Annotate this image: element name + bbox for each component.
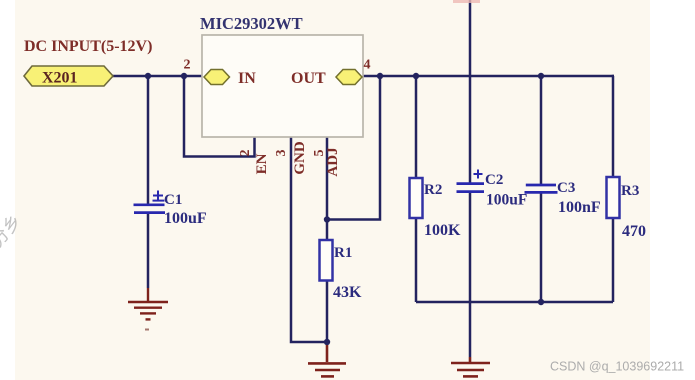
C1 plus sign <box>153 191 165 201</box>
node: junction OUT/feedback <box>377 73 383 79</box>
wire: C1 lower lead <box>147 213 150 288</box>
svg-text:CSDN @q_1039692211: CSDN @q_1039692211 <box>550 360 684 374</box>
wire: C2 lower lead to ground <box>469 193 472 357</box>
svg-text:GND: GND <box>292 141 308 175</box>
node: junction at C1 drop <box>145 73 151 79</box>
svg-text:100uF: 100uF <box>486 192 527 209</box>
node: junction R1 bottom / GND <box>324 339 330 345</box>
svg-text:470: 470 <box>622 223 646 240</box>
C2 plus sign <box>474 170 483 179</box>
node: junction OUT/C3 <box>538 73 544 79</box>
capacitor C1 <box>134 205 166 213</box>
wire: C1 upper lead <box>147 76 150 204</box>
svg-text:C3: C3 <box>557 180 575 196</box>
svg-text:MIC29302WT: MIC29302WT <box>200 14 303 33</box>
wire: C3 lower lead <box>540 193 543 302</box>
svg-text:2: 2 <box>184 58 191 73</box>
svg-text:3: 3 <box>274 150 289 157</box>
resistor R2 <box>410 178 423 218</box>
resistor R3 <box>607 177 620 218</box>
resistor R1 <box>320 240 333 281</box>
svg-text:EN: EN <box>254 153 270 174</box>
svg-text:43K: 43K <box>333 284 362 301</box>
capacitor C3 <box>525 185 558 192</box>
svg-text:IN: IN <box>238 70 256 87</box>
node: junction rail/C3 <box>538 299 544 305</box>
svg-text:C2: C2 <box>485 172 503 188</box>
ground (R1) <box>308 345 346 376</box>
svg-text:C1: C1 <box>164 192 182 208</box>
wire: X201 to IC IN <box>112 75 205 78</box>
svg-text:2: 2 <box>238 150 253 157</box>
pin 4 OUT hexagon <box>336 70 362 85</box>
faint top smudge <box>453 0 480 3</box>
capacitor C2 <box>457 184 485 192</box>
wire: R2 upper lead <box>415 76 418 178</box>
wire: R1 lower lead <box>326 280 329 342</box>
wire: GND pin down and to ground <box>291 137 327 342</box>
wire: ADJ pin down <box>326 137 329 220</box>
wire: ADJ feedback to OUT <box>327 76 380 220</box>
connector X201 <box>24 66 113 87</box>
ground (center) <box>451 357 490 376</box>
svg-text:4: 4 <box>364 58 371 73</box>
svg-text:R3: R3 <box>621 183 639 199</box>
wire: EN connection to input <box>184 76 255 157</box>
regulator U1 MIC29302WT body <box>202 35 363 137</box>
wire: OUT bus <box>361 75 614 78</box>
ground (C1) <box>128 288 168 319</box>
svg-text:R2: R2 <box>424 182 442 198</box>
node: junction ADJ/R1 <box>324 216 330 222</box>
pin 2 IN hexagon <box>204 70 230 85</box>
wire: bottom rail <box>416 301 613 304</box>
svg-text:DC INPUT(5-12V): DC INPUT(5-12V) <box>24 38 152 55</box>
wire: C3 upper lead <box>540 76 543 184</box>
wire: R3 upper lead <box>613 76 614 177</box>
svg-text:X201: X201 <box>42 70 78 87</box>
svg-text:R1: R1 <box>334 245 352 261</box>
svg-text:100uF: 100uF <box>164 210 207 227</box>
svg-text:100nF: 100nF <box>558 199 601 216</box>
wire: output net vertical through C2 <box>469 0 472 183</box>
svg-text:100K: 100K <box>424 222 461 239</box>
node: junction OUT/R2 <box>413 73 419 79</box>
svg-text:OUT: OUT <box>291 70 326 87</box>
wire: R1 upper lead <box>326 220 329 241</box>
wire: R2 lower lead <box>415 218 418 302</box>
wire: R3 lower lead <box>612 218 615 302</box>
svg-text:ADJ: ADJ <box>325 147 341 177</box>
stray mark below C1 ground <box>145 329 149 331</box>
node: junction at EN drop <box>181 73 187 79</box>
